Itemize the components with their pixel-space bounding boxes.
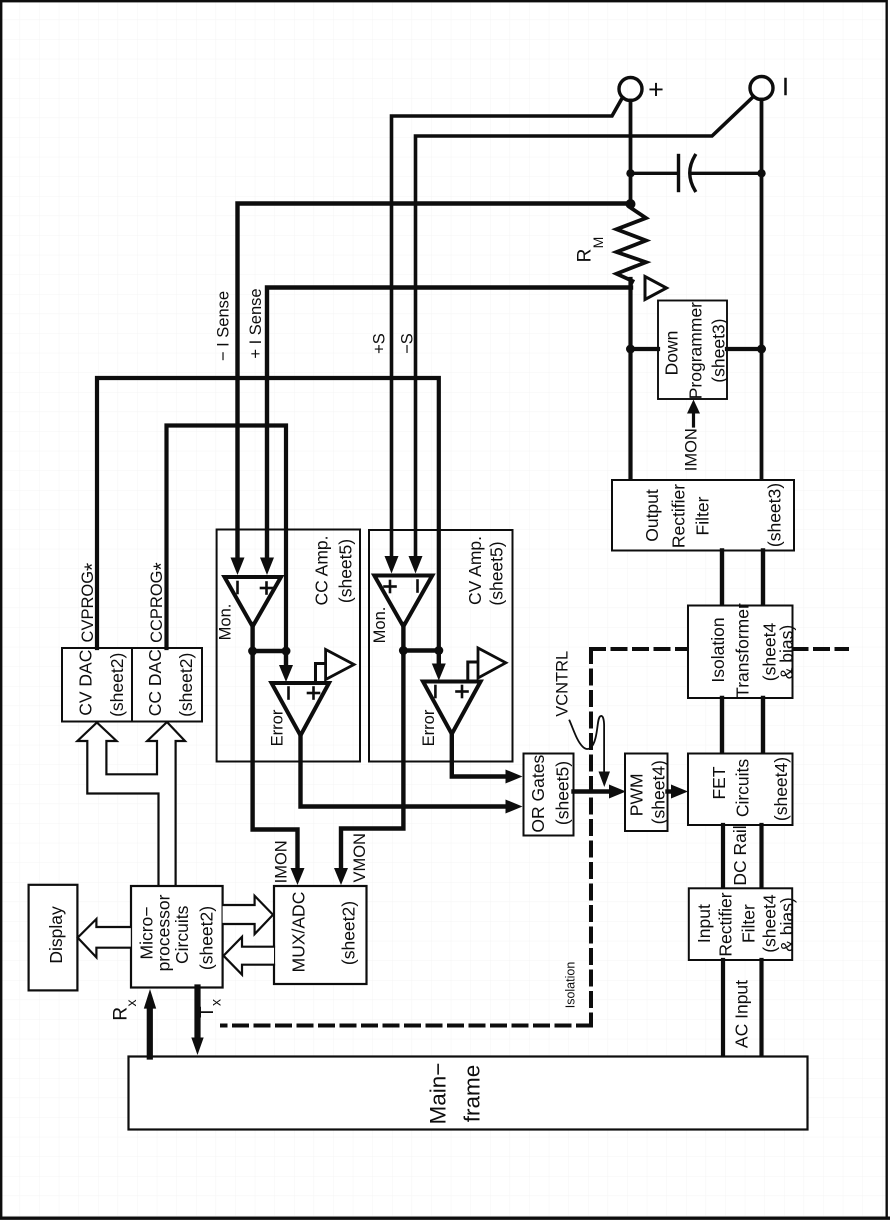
hollow arrow micro to display bbox=[78, 919, 131, 957]
PWM block bbox=[625, 754, 668, 832]
op-amp CV Mon bbox=[371, 576, 432, 644]
wire CV Mon output bbox=[401, 624, 405, 653]
buffer feeding CC Error + input bbox=[316, 650, 355, 684]
svg-text:Circuits: Circuits bbox=[172, 905, 192, 964]
resistor R_M bbox=[575, 205, 647, 284]
svg-text:x: x bbox=[207, 999, 223, 1006]
wire DC rail right bbox=[759, 825, 763, 888]
svg-text:(sheet5): (sheet5) bbox=[487, 541, 507, 605]
CC Amp group box (sheet5) bbox=[217, 530, 360, 762]
svg-text:Programmer: Programmer bbox=[686, 302, 706, 399]
wire transformer to FET right bbox=[761, 698, 765, 754]
CV DAC / CC DAC blocks bbox=[62, 648, 202, 722]
wire PWM to FET circuits bbox=[668, 785, 689, 799]
svg-text:IMON: IMON bbox=[273, 840, 291, 883]
OR gates block bbox=[524, 754, 574, 836]
svg-text:Isolation: Isolation bbox=[564, 962, 578, 1009]
junction dot right lead bbox=[757, 345, 766, 354]
hollow arrow micro to MUX bbox=[223, 896, 273, 934]
svg-text:(sheet5): (sheet5) bbox=[553, 761, 573, 825]
wire down programmer right lead bbox=[727, 347, 762, 351]
svg-text:Error: Error bbox=[269, 709, 287, 746]
svg-text:PWM: PWM bbox=[626, 773, 646, 816]
svg-text:IMON: IMON bbox=[683, 428, 701, 471]
svg-text:processor: processor bbox=[153, 894, 173, 971]
junction dot CC Mon output bbox=[248, 647, 257, 656]
terminal - bbox=[750, 77, 786, 100]
wire transformer to FET left bbox=[720, 698, 724, 754]
svg-text:Rectifier: Rectifier bbox=[669, 484, 689, 548]
svg-text:(sheet2): (sheet2) bbox=[107, 653, 127, 717]
svg-text:(sheet4): (sheet4) bbox=[771, 757, 791, 821]
svg-text:VCNTRL: VCNTRL bbox=[553, 651, 571, 717]
svg-text:& bias): & bias) bbox=[777, 897, 797, 951]
svg-text:DC Rail: DC Rail bbox=[730, 825, 750, 885]
svg-text:CC Amp.: CC Amp. bbox=[311, 535, 331, 605]
mainframe block bbox=[129, 1057, 808, 1130]
wire R_X (mainframe to micro) bbox=[111, 989, 157, 1057]
svg-text:CV DAC: CV DAC bbox=[76, 650, 96, 716]
svg-text:(sheet2): (sheet2) bbox=[176, 653, 196, 717]
wire CC Mon output bbox=[250, 624, 254, 653]
junction dot CV error input bbox=[434, 646, 443, 655]
svg-text:R: R bbox=[575, 249, 596, 263]
wire AC input left bbox=[721, 960, 725, 1057]
IMON arrow into down programmer bbox=[683, 400, 701, 472]
junction dot CV Mon output bbox=[399, 646, 408, 655]
wire VMON (CV Mon output to MUX/ADC) bbox=[334, 651, 403, 885]
op-amp CC Mon bbox=[217, 577, 282, 640]
hollow bus micro to CV DAC / CC DAC bbox=[77, 722, 185, 886]
svg-text:Circuits: Circuits bbox=[733, 759, 753, 818]
output rectifier filter block bbox=[612, 480, 794, 551]
isolation boundary dashed line bbox=[222, 649, 847, 1026]
svg-text:Input: Input bbox=[694, 904, 714, 943]
junction dot -I sense tap bbox=[626, 199, 636, 209]
buffer feeding CV Error + input bbox=[468, 648, 506, 682]
svg-text:R: R bbox=[111, 1007, 132, 1021]
svg-text:Isolation: Isolation bbox=[708, 617, 728, 682]
junction dot left lead bbox=[626, 345, 635, 354]
svg-text:(sheet3): (sheet3) bbox=[765, 483, 785, 547]
MUX/ADC block bbox=[274, 886, 367, 984]
svg-text:MUX/ADC: MUX/ADC bbox=[289, 892, 309, 973]
svg-text:Rectifier: Rectifier bbox=[716, 892, 736, 956]
svg-text:−S: −S bbox=[399, 333, 417, 354]
svg-text:Display: Display bbox=[46, 906, 66, 964]
wire + output bus (vertical from + terminal) bbox=[629, 101, 633, 208]
svg-text:Error: Error bbox=[420, 709, 438, 746]
op-amp CV Error bbox=[420, 682, 481, 747]
svg-text:CV Amp.: CV Amp. bbox=[465, 536, 485, 605]
svg-text:Filter: Filter bbox=[739, 904, 759, 943]
wire -I Sense (from + output node to CC Mon - input) bbox=[231, 204, 631, 576]
svg-text:Down: Down bbox=[662, 331, 682, 376]
input rectifier filter block bbox=[689, 888, 797, 960]
open arrow at R_M bottom bbox=[645, 277, 667, 300]
svg-text:Output: Output bbox=[642, 489, 662, 542]
wire CCPROG* (CC DAC to CC error input) bbox=[167, 426, 287, 652]
svg-text:− I Sense: − I Sense bbox=[215, 291, 233, 361]
svg-text:& bias): & bias) bbox=[777, 625, 797, 679]
svg-text:OR Gates: OR Gates bbox=[528, 755, 548, 833]
CV Amp group box (sheet5) bbox=[369, 530, 513, 762]
svg-text:CC DAC: CC DAC bbox=[145, 649, 165, 716]
wire ORF to transformer left bbox=[720, 551, 724, 606]
svg-text:FET: FET bbox=[709, 766, 729, 799]
svg-text:M: M bbox=[590, 237, 606, 249]
svg-text:(sheet2): (sheet2) bbox=[339, 901, 359, 965]
junction dot cap left bbox=[626, 169, 634, 177]
wire CVPROG* (CV DAC to CV error input) bbox=[97, 378, 439, 651]
wire AC input right bbox=[759, 960, 763, 1057]
wire CC Error output to OR gates bbox=[301, 736, 523, 814]
display block bbox=[29, 885, 78, 991]
svg-text:x: x bbox=[123, 1000, 139, 1007]
junction dot CC error input bbox=[282, 647, 291, 656]
svg-text:(sheet5): (sheet5) bbox=[336, 539, 356, 603]
terminal + bbox=[619, 75, 664, 105]
svg-text:frame: frame bbox=[460, 1065, 485, 1123]
wire CV Mon output to error input bbox=[403, 648, 438, 652]
wire down programmer left lead bbox=[631, 347, 659, 351]
svg-text:Mon.: Mon. bbox=[371, 607, 389, 644]
wire ORF to transformer right bbox=[761, 551, 765, 606]
isolation transformer block bbox=[688, 603, 797, 698]
svg-text:T: T bbox=[197, 1006, 218, 1018]
hollow arrow MUX to micro bbox=[224, 937, 275, 975]
microprocessor circuits block bbox=[131, 886, 223, 988]
wire +S sense (CV Mon + input to + terminal) bbox=[385, 98, 623, 574]
arrow into CV Error - input bbox=[437, 651, 441, 667]
svg-text:Filter: Filter bbox=[693, 496, 713, 535]
wire T_X (micro to mainframe) bbox=[191, 988, 223, 1056]
junction dot cap right bbox=[757, 169, 765, 177]
FET circuits block bbox=[688, 754, 793, 826]
VCNTRL pointer arrow bbox=[570, 716, 611, 787]
svg-text:VMON: VMON bbox=[351, 833, 369, 883]
svg-text:Mon.: Mon. bbox=[217, 604, 235, 641]
svg-text:AC Input: AC Input bbox=[732, 980, 752, 1048]
svg-text:+ I Sense: + I Sense bbox=[247, 288, 265, 358]
wire DC rail left bbox=[721, 825, 725, 888]
arrow into CC Error - input bbox=[284, 651, 288, 667]
svg-text:(sheet2): (sheet2) bbox=[197, 906, 217, 970]
svg-text:+S: +S bbox=[371, 333, 389, 354]
wire OR gates to PWM bbox=[574, 785, 627, 799]
wire - output bus (vertical from - terminal) bbox=[760, 100, 764, 481]
down programmer block bbox=[658, 301, 729, 400]
svg-text:Main−: Main− bbox=[426, 1063, 451, 1125]
wire +I Sense (from R_M bottom node to CC Mon + input) bbox=[260, 288, 631, 576]
wire CV Error output to OR gates bbox=[452, 734, 523, 784]
wire CC Mon output to error input bbox=[253, 649, 286, 653]
wire -S sense (CV Mon - input to - terminal) bbox=[409, 97, 754, 574]
op-amp CC Error bbox=[269, 683, 330, 746]
capacitor (output capacitor) bbox=[631, 156, 762, 191]
svg-text:+: + bbox=[648, 75, 664, 105]
svg-text:Transformer: Transformer bbox=[733, 603, 753, 698]
wire IMON (CC Mon output to MUX/ADC) bbox=[253, 651, 305, 885]
